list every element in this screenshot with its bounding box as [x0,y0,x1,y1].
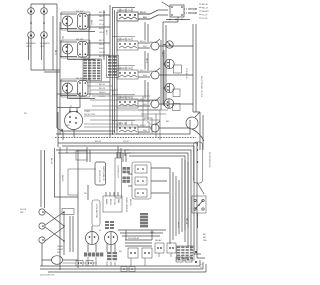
svg-text:RD: RD [84,193,88,195]
svg-text:SURFACE SW: SURFACE SW [117,96,131,99]
svg-text:DLB RELAY: DLB RELAY [128,237,140,240]
svg-text:RD: RD [24,113,28,115]
svg-text:OVEN SENSOR: OVEN SENSOR [125,197,127,213]
svg-text:GY-12: GY-12 [123,141,130,143]
svg-text:SURFACE SW: SURFACE SW [117,67,131,70]
svg-text:WH-14: WH-14 [99,92,106,94]
svg-text:WH: WH [203,240,207,242]
svg-text:WH: WH [150,100,154,102]
svg-text:WH-56: WH-56 [129,199,131,206]
svg-text:OVEN SW: OVEN SW [117,123,127,125]
svg-text:RD-46: RD-46 [185,218,187,225]
svg-text:SURFACE: SURFACE [26,42,36,45]
svg-text:RD: RD [203,237,207,239]
svg-text:OVEN: OVEN [84,111,90,113]
svg-text:FAN: FAN [117,199,120,204]
svg-text:DOOR UNLOCK: DOOR UNLOCK [208,152,210,168]
svg-text:OR-3: OR-3 [145,58,147,64]
svg-text:WH-18: WH-18 [202,11,209,13]
svg-text:RD-8: RD-8 [99,44,105,46]
svg-text:RD-2: RD-2 [99,16,105,18]
svg-text:240V 60HZ 3W: 240V 60HZ 3W [40,275,54,277]
svg-text:RD-13: RD-13 [99,88,106,90]
svg-text:SURFACE: SURFACE [40,42,50,45]
svg-text:LIGHT: LIGHT [57,249,64,251]
svg-text:BR-11: BR-11 [99,56,106,58]
svg-text:SW: SW [20,212,23,214]
svg-text:WH-15: WH-15 [61,175,63,182]
svg-text:WH-3: WH-3 [99,20,105,22]
svg-text:BK-16: BK-16 [202,4,209,6]
svg-text:BU-5: BU-5 [99,28,105,30]
svg-text:BK-12: BK-12 [99,84,106,86]
svg-text:BR: BR [166,121,169,123]
svg-text:BU-14: BU-14 [95,141,102,143]
svg-text:L1-20: L1-20 [202,18,208,20]
svg-text:CONV: CONV [113,199,115,206]
svg-text:INF SW: INF SW [76,11,83,13]
svg-text:RD-28: RD-28 [65,147,67,154]
svg-text:BK-30: BK-30 [50,158,52,165]
svg-text:DOOR LOCK: DOOR LOCK [98,170,100,183]
svg-text:RD-17: RD-17 [202,8,209,10]
svg-text:UNIT: UNIT [40,46,46,48]
svg-text:RELAY: RELAY [155,239,162,242]
svg-text:WH-2: WH-2 [90,20,92,26]
svg-text:SWITCH BK-31: SWITCH BK-31 [102,166,104,181]
svg-text:YL-19: YL-19 [202,15,208,17]
svg-text:WH-9: WH-9 [99,48,105,50]
svg-text:SURFACE SW: SURFACE SW [117,9,131,12]
svg-text:DLB: DLB [150,232,155,234]
svg-text:LOCK MOTOR: LOCK MOTOR [95,204,97,218]
svg-text:YL-15: YL-15 [99,96,105,98]
svg-text:GY-10: GY-10 [99,52,106,54]
svg-text:RD-7: RD-7 [61,36,63,42]
svg-text:OR-6: OR-6 [99,32,105,34]
svg-text:TOD BK-40: TOD BK-40 [185,68,187,80]
svg-text:BROIL: BROIL [109,199,111,206]
svg-text:DOOR: DOOR [20,209,27,211]
svg-text:SELECTOR: SELECTOR [84,114,96,116]
svg-text:M: M [99,230,101,232]
svg-text:ELECTRONIC CLOCK: ELECTRONIC CLOCK [200,76,202,98]
svg-text:CONTROL P4: CONTROL P4 [117,165,119,179]
svg-text:SURFACE SW: SURFACE SW [117,38,131,41]
svg-text:BAKE: BAKE [105,199,108,205]
svg-text:BK-1A: BK-1A [99,11,106,14]
svg-text:RD: RD [150,71,154,73]
svg-text:BK-44: BK-44 [177,222,179,229]
svg-text:UNIT: UNIT [26,46,32,48]
